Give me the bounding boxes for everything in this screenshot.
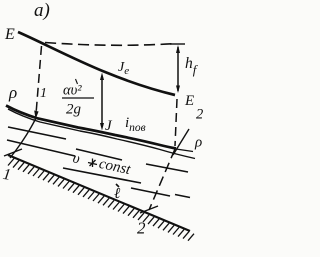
tick crossing section 2 at surface [173,129,189,155]
svg-text:2g: 2g [66,102,82,118]
channel bottom line [8,155,190,231]
short level dash R4 right lower [175,195,190,198]
streamline S2 left lower [7,140,75,156]
hf vertical double arrow [177,47,179,91]
streamline S3 above v=const text [76,149,122,160]
svg-text:αυ²: αυ² [63,83,82,99]
section 2 dashed line lower part to channel bottom [149,149,175,210]
hf arrow top cap [170,43,185,45]
asterisk symbol between v and const [88,159,97,168]
svg-text:2: 2 [137,219,146,238]
energy line Je (thick curve from E1 to E2) [18,32,175,95]
streamline L3 mid right [146,164,188,172]
svg-text:E: E [184,93,194,109]
section 1 solid line below surface [10,118,36,158]
water surface upper stroke (piezometric line) [6,106,176,149]
channel bottom hatching [8,159,194,241]
accent over l [116,184,119,187]
streamline S1 left under surface [8,127,66,139]
velocity head arrow between energy line and surface [101,76,103,127]
section 1 dashed line from junction down to water surface [36,46,42,114]
cross tick at section1 x bottom [4,149,22,156]
svg-text:1: 1 [40,86,47,101]
streamline U1 below v=const text [63,168,141,183]
section 2 dashed line upper part (vertical below E2) [175,99,177,146]
svg-text:E: E [4,26,15,43]
svg-text:2: 2 [196,107,203,123]
text v * const rotated with flow [71,150,133,178]
svg-text:ρ: ρ [194,135,202,151]
water surface lower stroke [8,109,195,159]
water surface thin extension right [176,149,193,152]
datum horizontal dashed line from junction to hf arrow [45,43,176,46]
svg-text:ρ: ρ [8,83,17,102]
cross tick at section2 x bottom [140,206,158,213]
paper background [0,0,226,257]
arrowhead onto surface (section 1) [34,111,38,120]
svg-text:а): а) [34,0,50,21]
streamline L2 right of lambda [131,188,170,196]
